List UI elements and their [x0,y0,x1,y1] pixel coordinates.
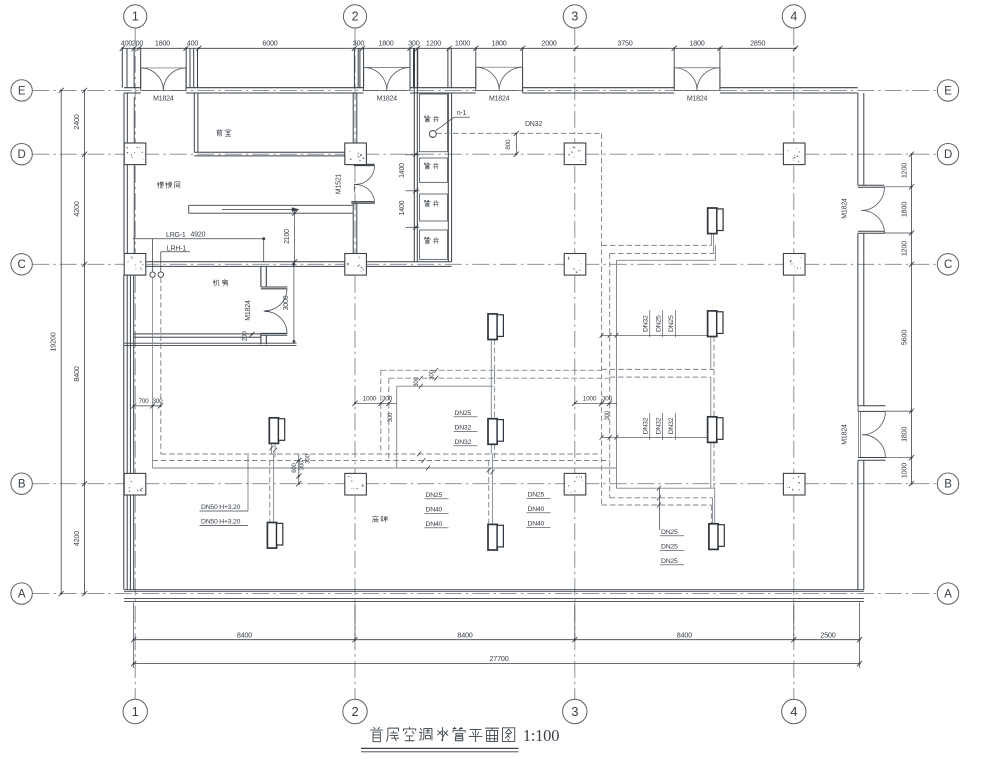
svg-text:3: 3 [571,9,578,23]
svg-text:4: 4 [790,9,797,23]
svg-text:2000: 2000 [541,38,556,47]
svg-text:1800: 1800 [689,38,704,47]
svg-text:2: 2 [351,704,358,719]
svg-text:2850: 2850 [750,38,765,47]
svg-text:A: A [18,589,26,601]
svg-text:DN25: DN25 [668,315,675,332]
svg-text:DN32: DN32 [455,425,472,432]
svg-text:200: 200 [132,38,144,47]
svg-text:800: 800 [505,139,512,150]
svg-text:DN32: DN32 [643,417,650,434]
svg-text:8400: 8400 [457,631,472,640]
svg-text:DN32: DN32 [455,439,472,446]
svg-text:19200: 19200 [49,332,58,351]
svg-text:1800: 1800 [491,38,506,47]
svg-text:DN25: DN25 [528,492,545,499]
svg-text:1400: 1400 [399,200,406,215]
svg-text:D: D [18,149,26,161]
svg-text:B: B [18,479,26,491]
svg-text:DN25: DN25 [661,529,678,536]
svg-text:3: 3 [571,704,578,719]
svg-text:8400: 8400 [237,631,252,640]
svg-text:LRH-1: LRH-1 [167,245,187,252]
svg-text:1000: 1000 [455,38,470,47]
svg-text:200: 200 [242,331,249,341]
svg-text:C: C [944,259,952,271]
svg-text:300: 300 [605,410,611,420]
svg-text:600: 600 [292,462,298,472]
svg-text:3750: 3750 [617,38,632,47]
svg-text:DN25: DN25 [455,410,472,417]
svg-text:DN40: DN40 [426,507,443,514]
svg-text:2400: 2400 [72,114,81,129]
svg-text:DN40: DN40 [528,506,545,513]
svg-text:300: 300 [382,396,393,403]
svg-text:DN50 H+3.20: DN50 H+3.20 [201,504,241,511]
svg-text:1800: 1800 [155,38,170,47]
svg-text:DN40: DN40 [426,521,443,528]
svg-text:M1824: M1824 [153,95,174,102]
svg-text:400: 400 [187,38,199,47]
svg-text:LRG-1: LRG-1 [166,232,186,239]
svg-text:1800: 1800 [378,38,393,47]
svg-text:n-1: n-1 [457,110,467,117]
svg-text:M1824: M1824 [842,424,849,445]
svg-text:300: 300 [388,412,394,422]
svg-text:DN40: DN40 [528,521,545,528]
svg-text:DN32: DN32 [655,417,662,434]
svg-text:4200: 4200 [72,201,81,216]
svg-text:300: 300 [414,376,420,386]
svg-text:DN25: DN25 [426,492,443,499]
svg-text:D: D [944,149,952,161]
svg-text:1200: 1200 [426,38,441,47]
svg-text:3000: 3000 [283,295,290,310]
svg-text:E: E [18,85,26,97]
svg-text:8400: 8400 [677,631,692,640]
svg-text:6000: 6000 [262,38,277,47]
svg-text:2100: 2100 [284,229,291,244]
svg-text:DN25: DN25 [661,544,678,551]
svg-text:DN32: DN32 [643,315,650,332]
svg-text:M1824: M1824 [245,300,252,321]
svg-text:C: C [18,259,26,271]
svg-text:300: 300 [353,38,365,47]
svg-text:4: 4 [790,704,797,719]
svg-text:300: 300 [430,369,436,379]
svg-text:27700: 27700 [490,654,509,663]
svg-text:A: A [944,589,952,601]
svg-text:DN32: DN32 [668,417,675,434]
svg-text:1200: 1200 [899,163,908,178]
svg-text:1: 1 [132,704,139,719]
svg-text:1:100: 1:100 [523,726,560,745]
svg-text:300: 300 [408,38,420,47]
svg-text:DN32: DN32 [525,121,542,128]
svg-text:1800: 1800 [899,202,908,217]
svg-text:1: 1 [132,9,139,23]
svg-text:2500: 2500 [820,631,835,640]
svg-text:5600: 5600 [899,330,908,345]
svg-text:DN50 H+3.20: DN50 H+3.20 [201,519,241,526]
svg-text:B: B [944,479,952,491]
svg-text:1200: 1200 [899,241,908,256]
svg-text:1000: 1000 [583,396,597,403]
svg-text:8400: 8400 [72,366,81,381]
svg-text:M1824: M1824 [842,198,849,219]
svg-text:2: 2 [352,9,359,23]
svg-text:400: 400 [121,38,133,47]
svg-text:1400: 1400 [399,163,406,178]
svg-text:M1824: M1824 [377,95,398,102]
svg-text:E: E [944,85,952,97]
svg-text:1000: 1000 [363,396,377,403]
svg-text:4920: 4920 [191,231,206,238]
svg-text:DN25: DN25 [655,315,662,332]
svg-text:M1521: M1521 [336,173,343,194]
svg-text:M1824: M1824 [687,95,708,102]
svg-text:700: 700 [138,398,149,405]
svg-text:300: 300 [602,396,613,403]
svg-text:4200: 4200 [72,531,81,546]
svg-text:300: 300 [300,460,306,470]
svg-text:300: 300 [152,398,163,405]
svg-text:1800: 1800 [899,427,908,442]
svg-text:DN25: DN25 [661,558,678,565]
svg-text:M1824: M1824 [489,95,510,102]
svg-text:300: 300 [306,453,312,463]
svg-text:1000: 1000 [899,463,908,478]
